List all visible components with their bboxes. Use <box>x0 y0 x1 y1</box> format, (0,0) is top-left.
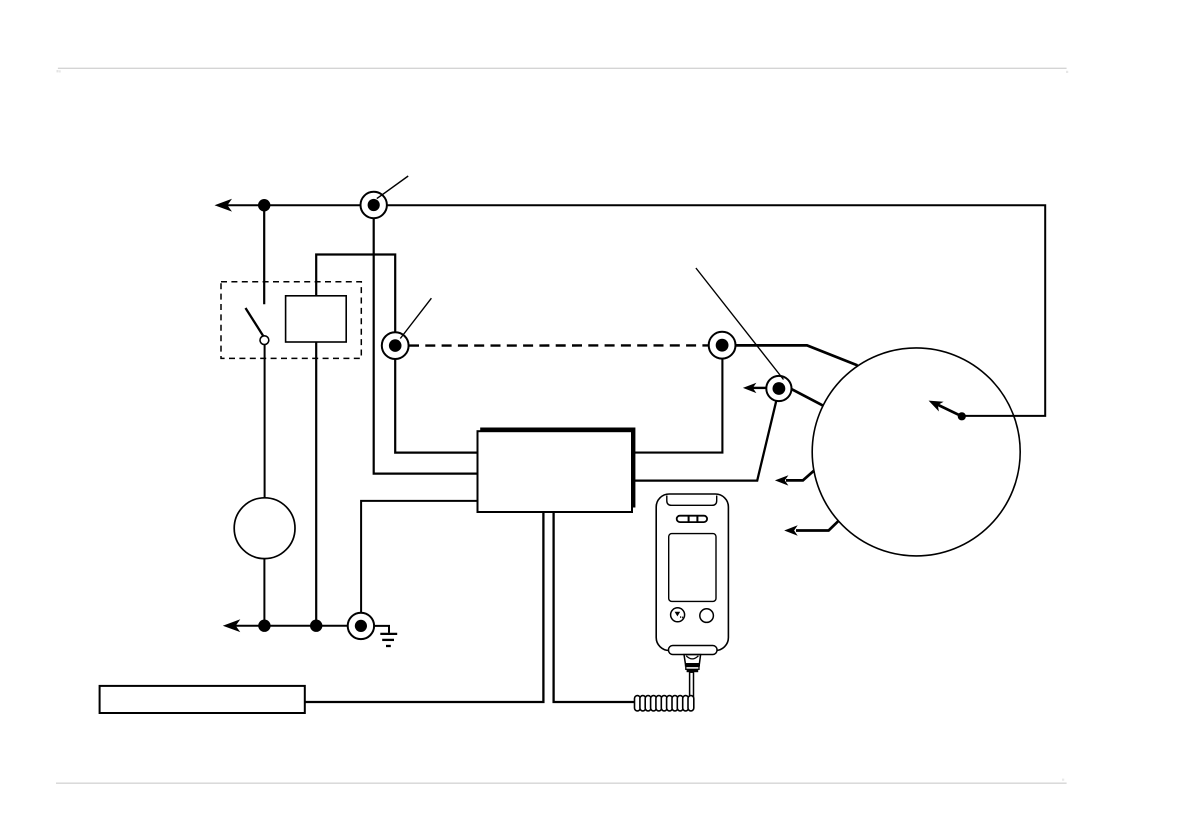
battery pack <box>100 686 305 713</box>
arrow from terminal T4 <box>752 387 766 389</box>
wire switch to lamp <box>264 344 266 498</box>
cord straight segment <box>690 672 694 700</box>
wire control box bottom to handset coil cord <box>554 512 635 702</box>
switch S1 contact circle <box>260 336 269 345</box>
handset body <box>656 494 728 651</box>
junction dot node A <box>258 199 270 211</box>
cord strain relief <box>685 664 700 667</box>
wire junction A down to switch <box>263 205 265 304</box>
terminal T1 <box>361 192 387 218</box>
junction dot node B <box>258 620 270 632</box>
terminal T3 <box>709 332 736 359</box>
wire control box right to terminal T3 <box>634 358 722 453</box>
callout pointer for T1 <box>377 176 408 199</box>
switch S1 blade <box>246 308 264 336</box>
dashed wire T2 to T3 <box>409 344 709 347</box>
wire bottom rail <box>226 625 352 627</box>
handset top cap seam <box>667 496 717 506</box>
wire relay coil top jog to terminal T2 <box>316 255 477 453</box>
page rule top <box>58 67 1067 69</box>
cord connector <box>684 655 701 664</box>
arrow lower into motor <box>796 521 838 530</box>
ground terminal <box>348 613 374 639</box>
wire terminal T1 down into control box <box>374 205 478 473</box>
wire terminal T4 to motor <box>791 389 823 406</box>
dashed enclosure (switch unit) <box>221 282 361 359</box>
handset left button <box>671 608 685 622</box>
wire control box to ground terminal <box>361 501 477 613</box>
arrow middle into motor <box>786 471 814 481</box>
page rule bottom <box>56 782 1067 784</box>
callout pointer for T2 <box>400 298 431 338</box>
terminal T2 <box>382 332 409 359</box>
motor pickup dot and arrow <box>958 412 966 420</box>
wire relay coil bottom to bottom rail <box>315 342 317 626</box>
control box U1 <box>478 431 633 512</box>
wire terminal T3 to motor <box>736 345 858 365</box>
arrow bottom-left ground feed <box>223 619 241 632</box>
motor M1 (large circle) <box>812 348 1020 556</box>
junction dot node C <box>310 620 322 632</box>
terminal T4 <box>766 376 791 401</box>
wire control box bottom to battery lead <box>305 512 544 702</box>
handset right button <box>700 609 714 623</box>
relay coil box <box>286 296 347 342</box>
wire control box right to terminal T4 <box>634 400 776 480</box>
wire top rail from arrow to right drop into motor <box>224 205 1045 416</box>
coiled cord <box>635 696 694 711</box>
handset speaker grille <box>677 516 707 522</box>
arrow top-left power feed <box>215 199 233 212</box>
wire ground branch <box>373 626 389 633</box>
handset screen <box>669 534 716 602</box>
handset bottom tab <box>669 646 718 655</box>
callout pointer for T4 <box>696 268 784 380</box>
lamp L1 <box>234 498 295 559</box>
ground symbol bars <box>380 633 397 635</box>
wire lamp to bottom rail <box>263 559 265 626</box>
